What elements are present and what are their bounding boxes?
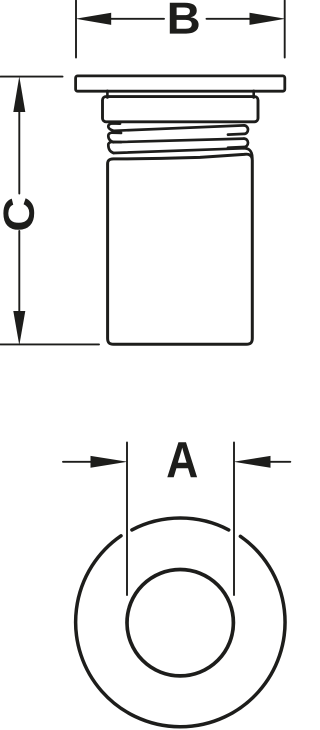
thread left hook 2 — [108, 133, 121, 143]
dimension C label (rotated) — [3, 198, 34, 230]
neck tick left — [106, 91, 109, 98]
dimension B extension line right — [284, 1, 286, 58]
flange (side view top plate) — [76, 76, 285, 91]
dimension B arrow right — [250, 13, 286, 25]
inner circle (hole) — [127, 570, 233, 676]
dimension C extension line bottom — [1, 343, 100, 345]
thread left hook 3 — [108, 142, 121, 153]
collar — [103, 97, 259, 122]
dimension A extension line left — [126, 443, 128, 596]
thread right hook 1 — [228, 125, 248, 134]
dimension B arrow left — [76, 13, 112, 25]
dimension C line upper segment — [18, 111, 20, 194]
dimension A label — [167, 442, 197, 477]
thread crest line 1 — [114, 125, 245, 130]
dimension A arrow left — [91, 456, 128, 468]
dimension A extension line right — [233, 443, 235, 596]
dimension A line right tail — [270, 461, 291, 463]
outer circle main arc — [76, 536, 285, 727]
dimension C extension line top — [1, 76, 63, 78]
dimension A line left tail — [63, 461, 92, 463]
thread crest line 2 — [114, 139, 245, 143]
neck tick right — [252, 91, 255, 98]
thread crest line 3 — [114, 148, 244, 153]
thread left hook 1 — [108, 123, 120, 130]
dimension C line lower segment — [18, 231, 20, 312]
dimension A arrow right — [234, 456, 271, 468]
body (cylindrical sleeve) — [108, 154, 253, 344]
dimension B line left segment — [111, 18, 165, 20]
dimension C arrow down — [13, 311, 25, 345]
dimension B extension line left — [75, 1, 77, 58]
dimension B line right segment — [207, 18, 251, 20]
outer circle (bottom view) top arc between gaps — [132, 518, 229, 530]
thread end curve into body — [243, 148, 252, 158]
thread right hook 2 — [228, 139, 248, 148]
dimension B label — [170, 3, 199, 34]
dimension C arrow up — [13, 76, 25, 112]
